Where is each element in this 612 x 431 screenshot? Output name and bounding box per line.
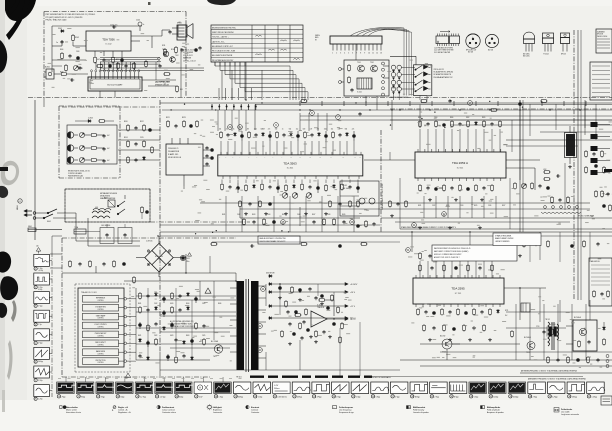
svg-text:1 Vpp: 1 Vpp [356, 396, 360, 398]
test point label L6 [34, 360, 43, 364]
transistor T702 frame out [440, 336, 460, 361]
svg-text:1.1Vp: 1.1Vp [38, 268, 42, 270]
IC701 TDA2595 sync processor [413, 275, 504, 307]
test point label B17 [371, 395, 380, 399]
svg-text:R415: R415 [282, 214, 286, 216]
wire sub-box [341, 66, 390, 82]
front knob P301 [67, 132, 78, 138]
svg-text:IF AMPL 38.9: IF AMPL 38.9 [168, 153, 178, 156]
svg-text:6: 6 [352, 53, 353, 55]
package TO202 drawing [561, 33, 570, 56]
speaker bus label [155, 81, 170, 87]
wire left drop to PSU [35, 97, 44, 107]
legend line frequency [333, 406, 355, 415]
capacitor C103 [56, 40, 64, 44]
pad column ST202 [382, 62, 385, 96]
warning triangle b [125, 373, 130, 378]
wire panel out [118, 130, 160, 160]
test point label L2 [34, 286, 43, 291]
waveform scope box B5 [135, 382, 153, 394]
wire top mid drops [222, 62, 262, 100]
svg-text:e: e [468, 45, 469, 47]
coil circles in delay box [340, 196, 375, 206]
waveform scope box B1 [57, 382, 75, 394]
svg-text:220u: 220u [186, 261, 190, 263]
capacitor C303 [102, 159, 109, 163]
degaussing box [65, 189, 150, 222]
svg-text:1.2Vpp: 1.2Vpp [592, 396, 597, 398]
transformer TR601 primary [237, 281, 245, 370]
left column dash-dot vertical [159, 100, 161, 352]
svg-text:9Vpp: 9Vpp [81, 396, 85, 398]
function table [211, 25, 303, 62]
right col extra [595, 190, 612, 212]
svg-text:3: 3 [35, 306, 36, 308]
volume pot P101 [73, 65, 82, 70]
svg-text:BU 126A: BU 126A [211, 340, 219, 343]
svg-text:Ampiezza di quadro: Ampiezza di quadro [487, 411, 504, 414]
package TO220 drawing [543, 33, 554, 56]
svg-text:R323: R323 [182, 117, 186, 119]
svg-text:T 702: T 702 [442, 352, 446, 354]
svg-text:14: 14 [137, 396, 139, 398]
left column riser wire [51, 252, 53, 397]
wire stubs to scope boxes [66, 377, 223, 382]
X capacitor C601 [100, 224, 132, 244]
svg-text:T202: T202 [370, 62, 374, 64]
svg-text:300ms: 300ms [274, 388, 279, 390]
scan streaks left margin [2, 340, 13, 412]
svg-text:D502: D502 [466, 117, 470, 119]
svg-text:VIDEO MODULE: VIDEO MODULE [168, 157, 182, 159]
svg-text:REFERENCE: REFERENCE [96, 298, 105, 300]
test point PSU a [261, 287, 266, 292]
svg-text:1 Vpp: 1 Vpp [395, 396, 399, 398]
warning text block [170, 320, 195, 328]
svg-text:2.2Vp: 2.2Vp [38, 398, 42, 400]
svg-text:0.2V: 0.2V [274, 385, 279, 387]
wire rails extra mid [160, 225, 612, 262]
colour/line divider vertical [380, 130, 382, 232]
svg-text:45Vpp: 45Vpp [297, 396, 302, 398]
wire left rail vertical [35, 100, 62, 240]
fuse SI601 [28, 226, 100, 234]
value labels above IC501 [418, 117, 486, 119]
wire drops below IC501 rail [424, 196, 496, 218]
svg-text:R63: R63 [180, 89, 183, 91]
svg-text:R621: R621 [138, 335, 142, 337]
scan streak bottom-left [11, 300, 17, 322]
wire bottom long rail [160, 340, 400, 370]
svg-text:17: 17 [196, 396, 198, 398]
legend mains switch [60, 406, 82, 415]
wire secondary verticals [266, 284, 334, 315]
power section border [62, 222, 250, 377]
scan mark left small hook [0, 186, 8, 198]
scan mark right edge [604, 169, 612, 172]
svg-text:BEDIENUNGSFUNKT. FBD F/NC: BEDIENUNGSFUNKT. FBD F/NC [212, 27, 237, 29]
component row below IC401 [221, 183, 360, 193]
svg-text:R616: R616 [218, 303, 222, 305]
svg-text:3.5R IN +30.21: 3.5R IN +30.21 [183, 55, 193, 57]
waveform scope box B7 [174, 382, 192, 394]
wire drops below IC401 [222, 180, 358, 184]
svg-text:LS 1: LS 1 [178, 22, 181, 24]
wire psu top entry [210, 256, 236, 281]
svg-text:⇅: ⇅ [112, 409, 114, 412]
svg-text:R611: R611 [138, 303, 141, 305]
svg-text:1 Vpp: 1 Vpp [219, 396, 223, 398]
waveform scope box B21 [449, 382, 467, 394]
svg-text:8 Vpp: 8 Vpp [454, 396, 458, 398]
audio extra parts [60, 49, 135, 72]
svg-text:FERN-: FERN- [315, 35, 320, 37]
svg-text:4: 4 [35, 324, 36, 326]
test point label L3 [34, 304, 43, 308]
svg-text:C412: C412 [237, 214, 241, 216]
svg-text:35: 35 [549, 396, 551, 398]
resistor R201 [348, 64, 351, 72]
svg-text:5 Vpp: 5 Vpp [474, 396, 478, 398]
svg-text:19: 19 [235, 396, 237, 398]
svg-text:1.2Vpp: 1.2Vpp [552, 396, 557, 398]
svg-text:20: 20 [254, 396, 256, 398]
wire verticals x300 band [300, 113, 327, 131]
psu labels [138, 303, 222, 337]
wire bottom right rails [400, 288, 612, 360]
driver transformer TR701 [521, 303, 559, 337]
svg-text:10: 10 [58, 396, 60, 398]
mains switch S601 [36, 209, 76, 223]
components above IC701 [419, 252, 498, 260]
waveform scope box B16 [351, 382, 369, 394]
svg-text:1.2 Vpp: 1.2 Vpp [160, 396, 166, 398]
wire IC601 pins right [127, 299, 136, 361]
scan blob bottom-left 2 [0, 276, 18, 300]
svg-text:R601: R601 [104, 198, 108, 200]
svg-text:R417: R417 [312, 214, 316, 216]
svg-text:C418: C418 [327, 214, 331, 216]
band divider horizontal [28, 97, 612, 99]
thin rule above row [368, 376, 583, 378]
test point label B2 [77, 395, 85, 399]
svg-text:33: 33 [510, 396, 512, 398]
waveform scope box B15 [332, 382, 350, 394]
svg-text:1n: 1n [56, 42, 58, 44]
waveform scope box B28 [587, 382, 605, 394]
svg-text:TDA 7056: TDA 7056 [102, 38, 115, 42]
waveform scope box B6 [155, 382, 173, 394]
test point label B8 [195, 395, 204, 399]
posistor R601 [104, 198, 115, 208]
wire band to IC701 [412, 232, 540, 260]
HOT transformer TR702 [545, 319, 559, 350]
east-west extra parts [523, 240, 600, 248]
wire horizontals right of IC501 [506, 132, 612, 146]
svg-text:22: 22 [294, 396, 296, 398]
svg-text:R310: R310 [124, 121, 128, 123]
resistor R130 [171, 46, 177, 54]
svg-text:A: A [199, 386, 201, 390]
svg-text:1.2 Vpp: 1.2 Vpp [140, 396, 146, 398]
svg-text:4.8Vp: 4.8Vp [38, 289, 42, 291]
scan smudge ring left [1, 161, 19, 186]
legend line width [554, 408, 579, 417]
test point label L1 [34, 267, 43, 272]
svg-text:C601 SIEMENS: C601 SIEMENS [101, 225, 110, 227]
svg-text:32: 32 [490, 396, 492, 398]
svg-text:15: 15 [156, 396, 158, 398]
deflection yoke parts [541, 196, 581, 213]
terminal circles left [339, 68, 342, 84]
scan blob top-left corner [5, 0, 36, 40]
svg-text:2Vpp: 2Vpp [101, 396, 105, 398]
svg-text:16: 16 [176, 396, 178, 398]
bus junction ticks [211, 104, 256, 110]
third row below IC401 [243, 218, 346, 226]
svg-text:25Vpp: 25Vpp [572, 396, 577, 398]
output arrow +26 V [273, 291, 356, 294]
east-west components [585, 150, 606, 174]
bottom-right extra parts [547, 356, 600, 364]
svg-text:SI601: SI601 [28, 226, 32, 228]
test point label B15 [332, 395, 341, 399]
wire bottom-right verticals [516, 304, 586, 360]
wire vertical pair x520 [520, 100, 523, 232]
test point label B23 [489, 395, 498, 399]
svg-text:C724: C724 [536, 326, 540, 328]
svg-text:47u: 47u [268, 129, 271, 131]
horizontal output box [566, 316, 597, 351]
svg-text:C622: C622 [154, 335, 158, 337]
IC501 TDA2653A vertical deflection [415, 149, 506, 181]
svg-text:+26 V: +26 V [350, 292, 356, 294]
components right of panel [127, 124, 154, 164]
svg-text:90Vpp: 90Vpp [38, 361, 43, 363]
test point label B1 [57, 395, 65, 399]
connector ST201 [330, 36, 382, 55]
svg-text:+B 147V: +B 147V [350, 284, 358, 286]
waveform scope box B12 [273, 382, 291, 394]
svg-text:C524: C524 [460, 205, 464, 207]
test point label B24 [509, 395, 519, 399]
svg-text:R419: R419 [342, 214, 346, 216]
svg-text:IC 201: IC 201 [357, 92, 362, 94]
test point label B9 [214, 395, 223, 399]
delay line box [340, 181, 379, 216]
svg-text:BC 548: BC 548 [468, 52, 473, 54]
line filter choke [92, 211, 110, 218]
note box right [432, 245, 517, 261]
svg-text:1.2Vp: 1.2Vp [38, 287, 42, 289]
svg-text:C526: C526 [488, 205, 492, 207]
svg-text:R614: R614 [186, 303, 190, 305]
scan blob bottom-left 3 [0, 303, 7, 318]
IC 201 small [357, 78, 372, 94]
wire audio left drop [52, 40, 86, 60]
wire left col to psu [50, 254, 62, 268]
svg-text:R314: R314 [124, 137, 128, 139]
stabilization separator [400, 216, 612, 229]
svg-text:TDA 2595: TDA 2595 [451, 287, 465, 291]
bus test points [228, 101, 473, 130]
svg-text:R521: R521 [418, 205, 422, 207]
resistor R301 [90, 134, 104, 137]
svg-text:CONTROL: CONTROL [97, 336, 104, 338]
speaker area parts [158, 45, 201, 75]
svg-text:T102: T102 [175, 55, 179, 57]
waveform scope box B25 [528, 382, 546, 394]
svg-text:CONTROL: CONTROL [97, 344, 104, 346]
pot P303 [79, 157, 90, 162]
right margin info box [596, 29, 612, 53]
connector pins SCART [91, 70, 140, 79]
svg-text:IC 401: IC 401 [287, 168, 294, 170]
beam limiter note box [493, 233, 541, 246]
resistor R119 [183, 50, 196, 63]
svg-text:BU 102 SCART: BU 102 SCART [107, 84, 123, 87]
resistor R104 [94, 56, 100, 64]
legend control [112, 406, 131, 415]
svg-text:C522: C522 [432, 205, 436, 207]
mid extra parts y240 [210, 243, 368, 248]
wire below IC to right [240, 207, 360, 226]
svg-text:R312: R312 [140, 121, 144, 123]
trimmer P403 [306, 193, 312, 199]
diode D101 [58, 28, 65, 32]
svg-text:12Vpp: 12Vpp [493, 396, 498, 398]
svg-text:8Vpp: 8Vpp [179, 396, 183, 398]
resistor R302 [90, 147, 104, 150]
junction dots extra [170, 99, 523, 234]
svg-text:R509: R509 [482, 117, 486, 119]
svg-text:1 Vpp: 1 Vpp [258, 396, 262, 398]
svg-text:330: 330 [275, 129, 278, 131]
svg-text:2: 2 [336, 53, 337, 55]
wire drops above IC701 [420, 261, 492, 278]
transistor T701 driver [524, 336, 535, 354]
wire verticals x220 band [218, 110, 246, 131]
test point below IC401 b [350, 220, 355, 225]
output arrow +5.1 V [273, 317, 357, 320]
svg-text:T601: T601 [213, 356, 217, 358]
opamp IC602 regulator [311, 305, 356, 328]
legend field linearity [407, 406, 429, 415]
wire bottom-right horizontals [420, 312, 612, 366]
svg-text:S601: S601 [47, 221, 51, 223]
waveform scope box L8 [34, 385, 50, 397]
test point PSU b [258, 324, 263, 329]
pot P301 [79, 132, 90, 137]
wire right area verticals [520, 30, 585, 300]
test point label B3 [96, 395, 104, 399]
waveform scope box B4 [116, 382, 134, 394]
svg-text:26: 26 [372, 396, 374, 398]
table pin row [215, 62, 245, 66]
svg-text:36: 36 [568, 396, 570, 398]
svg-text:1k5: 1k5 [331, 129, 333, 131]
pot P302 [79, 145, 90, 150]
test point label B21 [450, 395, 459, 399]
svg-text:37: 37 [588, 396, 590, 398]
transformer TR601 taps [230, 286, 266, 379]
wire IC701 out [420, 288, 546, 344]
svg-text:18: 18 [215, 396, 217, 398]
bottom heavy dashes [250, 376, 343, 378]
headphone jack socket [44, 67, 54, 80]
svg-text:R130: R130 [171, 49, 175, 51]
svg-text:TDA 3563: TDA 3563 [283, 161, 297, 165]
wire drops above IC401 [221, 141, 354, 155]
opamp input parts [294, 314, 343, 339]
wire mid verticals [400, 163, 565, 229]
svg-text:BD 232: BD 232 [440, 336, 445, 338]
waveform scope box B14 [312, 382, 330, 394]
svg-text:12: 12 [97, 396, 99, 398]
svg-text:60Vpp: 60Vpp [415, 396, 420, 398]
keyboard switch bank [390, 28, 432, 99]
svg-text:2 Vpp: 2 Vpp [533, 396, 537, 398]
test point label L7 [34, 379, 43, 383]
wire elbows from table [215, 62, 308, 92]
secondary filter parts [278, 284, 333, 316]
IC601 outer dashed box [75, 284, 130, 372]
test point label L8 [34, 397, 43, 401]
wire scart drop [100, 91, 115, 98]
test point label B10 [234, 395, 243, 399]
svg-text:140: 140 [36, 246, 39, 248]
wire IC401 to IC501 [364, 152, 415, 160]
caps at IF output [205, 146, 213, 166]
test point IC701 [406, 246, 503, 253]
svg-text:3: 3 [340, 53, 341, 55]
band divider second [390, 108, 612, 110]
waveform scope box B13 [292, 382, 310, 394]
svg-text:56k: 56k [289, 129, 292, 131]
IC701 second row above [419, 264, 494, 272]
test point below IC401 a [281, 220, 286, 225]
antenna separator [520, 370, 612, 373]
value text speckle [48, 28, 612, 367]
right section divider vertical [573, 30, 575, 300]
svg-text:C603: C603 [186, 258, 190, 260]
transistor T601 BU126A [211, 340, 223, 358]
svg-text:25: 25 [353, 396, 355, 398]
svg-text:TDA 4601 D / IC 601: TDA 4601 D / IC 601 [81, 291, 97, 294]
svg-text:2: 2 [35, 287, 36, 289]
svg-text:n47: n47 [310, 129, 313, 131]
wire verticals right of IC501 [512, 104, 596, 152]
wire mid left vertical [160, 186, 184, 376]
bottom right mid cluster [543, 169, 560, 180]
svg-text:12: 12 [376, 53, 378, 55]
svg-text:ZF-BAUSTEIN: ZF-BAUSTEIN [168, 150, 180, 153]
svg-text:CONTROL: CONTROL [97, 353, 104, 355]
degauss caption [100, 192, 117, 200]
capacitor C302 [102, 147, 109, 151]
connector ST101 [177, 23, 186, 41]
capacitor C105 electrolytic [136, 20, 145, 32]
waveform scope box B17 [371, 382, 389, 394]
svg-text:4k7: 4k7 [247, 129, 249, 131]
svg-text:13: 13 [380, 53, 382, 55]
scan mark left dash [0, 167, 8, 171]
svg-text:5Vpp: 5Vpp [120, 396, 124, 398]
svg-text:ZERO DETECT: ZERO DETECT [95, 342, 106, 344]
svg-text:10: 10 [368, 53, 370, 55]
svg-text:8: 8 [35, 399, 36, 401]
svg-text:R411: R411 [222, 214, 225, 216]
